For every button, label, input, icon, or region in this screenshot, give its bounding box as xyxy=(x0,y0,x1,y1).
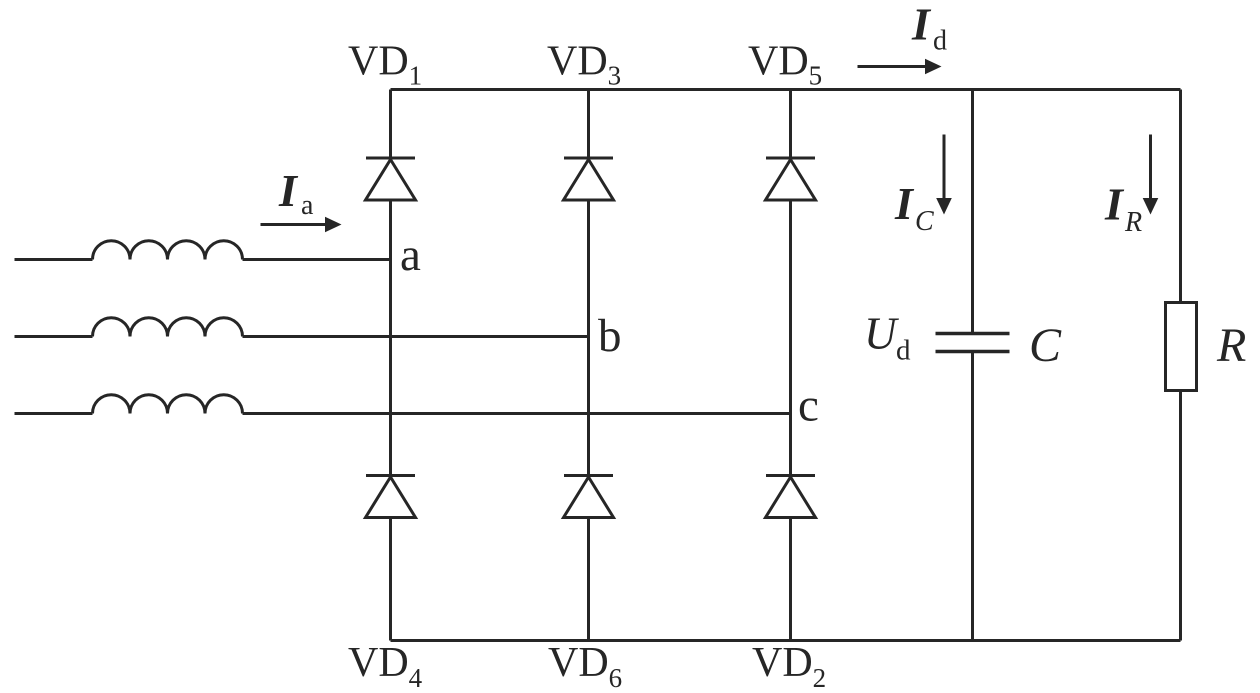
diode VD3 xyxy=(564,158,614,200)
capacitor C xyxy=(936,334,1010,352)
svg-text:C: C xyxy=(1029,319,1062,372)
wire: phase-a leg VD1 anode to VD4 cathode xyxy=(389,200,392,476)
wire: VD5 cathode lead xyxy=(789,90,792,159)
wire: capacitor branch bottom xyxy=(971,352,974,641)
wire: top DC bus xyxy=(391,88,1181,91)
wire: resistor branch top xyxy=(1179,90,1182,303)
wire: VD3 cathode lead xyxy=(587,90,590,159)
arrow Ia xyxy=(261,217,342,233)
svg-text:a: a xyxy=(301,190,314,221)
inductor Lb xyxy=(93,318,243,337)
inductor Lc xyxy=(93,395,243,414)
svg-text:d: d xyxy=(896,335,911,367)
arrow IC xyxy=(936,135,952,215)
diode VD6 xyxy=(564,476,614,518)
wire: resistor branch bottom xyxy=(1179,391,1182,641)
diode VD5 xyxy=(766,158,816,200)
svg-text:a: a xyxy=(400,229,421,281)
wire: VD6 anode lead xyxy=(587,518,590,641)
wire: bottom DC bus xyxy=(391,639,1181,642)
wire: phase b left lead xyxy=(15,335,93,338)
wire: phase-c leg VD5 anode to VD2 cathode xyxy=(789,200,792,476)
diode VD4 xyxy=(366,476,416,518)
wire: phase c left lead xyxy=(15,412,93,415)
wire: phase a left lead xyxy=(15,258,93,261)
svg-text:I: I xyxy=(278,165,299,216)
svg-text:C: C xyxy=(915,206,934,237)
diode VD2 xyxy=(766,476,816,518)
arrow Id xyxy=(858,59,942,75)
svg-text:R: R xyxy=(1216,319,1246,372)
svg-text:I: I xyxy=(1104,179,1125,230)
svg-text:d: d xyxy=(933,26,947,57)
wire: phase b to node b xyxy=(243,335,589,338)
wire: capacitor branch top xyxy=(971,90,974,334)
svg-text:R: R xyxy=(1124,207,1142,238)
wire: phase a to node a xyxy=(243,258,391,261)
diode VD1 xyxy=(366,158,416,200)
svg-text:I: I xyxy=(894,178,915,229)
wire: VD4 anode lead xyxy=(389,518,392,641)
svg-text:I: I xyxy=(911,0,932,50)
wire: phase c to node c xyxy=(243,412,791,415)
inductor La xyxy=(93,241,243,260)
resistor R xyxy=(1166,303,1197,391)
svg-text:c: c xyxy=(798,380,819,432)
svg-text:b: b xyxy=(598,310,622,362)
svg-text:U: U xyxy=(864,309,899,359)
arrow IR xyxy=(1143,135,1159,215)
wire: phase-b leg VD3 anode to VD6 cathode xyxy=(587,200,590,476)
wire: VD2 anode lead xyxy=(789,518,792,641)
wire: VD1 cathode lead xyxy=(389,90,392,159)
